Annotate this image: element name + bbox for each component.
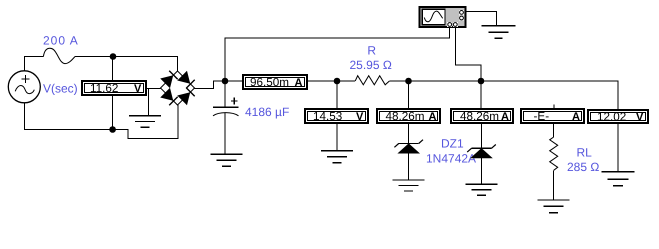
wire node C to ammeter M2 [225,80,242,82]
ground G4 [321,151,353,163]
ammeter M5 48.26m A [450,108,514,124]
svg-text:RL: RL [577,145,593,159]
ground G1 [129,116,161,128]
svg-text:200 A: 200 A [43,34,79,48]
svg-text:96.50m: 96.50m [250,76,289,89]
wire node F to ammeter M5 [480,81,482,108]
svg-text:V: V [134,83,142,95]
node E [405,78,412,85]
diode D4 bottom-right [178,88,194,104]
svg-text:DZ1: DZ1 [441,137,464,151]
ammeter M2 96.50m A [242,74,308,90]
bridge rectifier diamond [161,71,195,105]
ammeter M4 48.26m A [376,108,441,124]
wire scope channel A [225,28,450,81]
node F [478,78,485,85]
wire DZ1 to ground G5 [408,153,410,180]
svg-text:48.26m: 48.26m [460,110,499,123]
wire bridge left corner to voltmeter [147,88,161,90]
wire voltmeter bottom [112,96,114,130]
fuse F1 [43,48,75,63]
capacitor C1 [213,81,239,154]
svg-text:1N4742A: 1N4742A [426,151,476,165]
ground G5 [393,180,425,191]
wire voltmeter top [112,57,114,81]
wire M6 to resistor RL [553,124,555,137]
diode D2 top-right [178,72,194,88]
zener diode DZ1 [394,140,423,153]
voltmeter M7 12.02 V [587,109,649,124]
svg-text:V: V [636,112,644,124]
wire bottom rail [25,103,179,139]
ground G8 [602,172,635,186]
resistor RL [550,137,558,170]
ground G3 [482,26,516,39]
diode D3 bottom-left [161,89,177,105]
ground G2 [211,154,243,166]
wire node E to ammeter M4 [408,81,410,108]
wire node D to voltmeter M3 [336,81,338,108]
ammeter M6 unconnected stub [553,105,555,109]
wire bus to 12.02 meter [481,81,618,109]
svg-text:R: R [367,43,376,57]
svg-text:285 Ω: 285 Ω [567,160,599,174]
svg-text:48.26m: 48.26m [386,110,425,123]
wire top rail [75,57,178,72]
node D [334,78,341,85]
wire DZ2 to ground G6 [481,158,483,184]
resistor R [355,76,389,85]
wire M2 to node D and resistor R [308,80,355,82]
wire scope ground terminal [467,12,497,26]
zener diode DZ2 [467,145,496,158]
AC source V(sec) [8,71,40,103]
svg-text:-E-: -E- [534,110,550,123]
wire M7 to ground G8 [617,124,619,172]
wire M5 to zener DZ2 [481,124,483,148]
svg-text:A: A [295,77,303,89]
ground G7 [538,200,570,213]
svg-text:11.62: 11.62 [90,82,118,95]
svg-text:V(sec): V(sec) [43,82,78,96]
wire ground tap G1 [148,89,150,116]
voltmeter M1 11.62 V [81,80,147,96]
wire M3 to ground G4 [336,124,338,151]
svg-text:A: A [501,111,509,123]
node A [110,53,117,60]
ground G6 [466,184,498,195]
wire bridge right corner to node C [195,81,226,89]
svg-text:V: V [356,111,364,123]
node C [222,78,229,85]
svg-text:14.53: 14.53 [313,110,342,123]
svg-text:A: A [429,111,437,123]
ammeter M6 -E- A [520,108,585,124]
svg-text:A: A [572,111,580,123]
wire scope channel B [455,28,481,81]
wire source top to fuse [25,57,44,72]
wire RL to ground G7 [553,170,555,200]
svg-text:12.02: 12.02 [597,111,626,124]
svg-text:4186 µF: 4186 µF [245,105,289,119]
diode D1 top-left [161,71,177,87]
oscilloscope XSC1 [420,7,466,27]
wire M4 to zener DZ1 [408,124,410,144]
wire R to node E and node F [389,80,481,82]
voltmeter M3 14.53 V [304,108,369,124]
node B [109,126,116,133]
svg-text:25.95 Ω: 25.95 Ω [350,58,392,72]
